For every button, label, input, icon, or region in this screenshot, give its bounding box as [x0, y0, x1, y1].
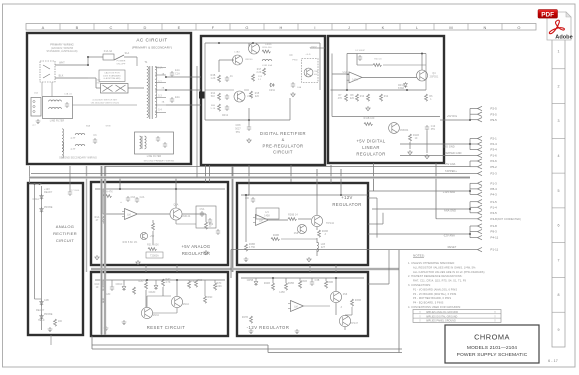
svg-text:STANDARD, AUSTRALIAN): STANDARD, AUSTRALIAN) [47, 50, 78, 53]
feed wire [41, 186, 43, 330]
wire [470, 143, 478, 145]
svg-text:TIP142: TIP142 [326, 223, 335, 225]
svg-text:ANALOG: ANALOG [56, 224, 74, 229]
wire [248, 108, 250, 125]
resistor R25B [285, 283, 288, 290]
connector pin P4-5 [478, 211, 483, 215]
wire [31, 173, 470, 175]
+5V analog regulator box [91, 182, 228, 265]
capacitor C3B [310, 280, 314, 286]
wire [470, 173, 478, 175]
junction [218, 42, 220, 44]
wire [267, 345, 269, 353]
svg-text:100K: 100K [216, 286, 222, 288]
wire [356, 54, 358, 66]
svg-text:4: 4 [557, 154, 559, 158]
svg-text:22T: 22T [321, 247, 326, 249]
svg-text:P2-6: P2-6 [491, 159, 498, 163]
svg-text:TIP147: TIP147 [350, 323, 359, 325]
junction [34, 183, 36, 185]
wire [382, 213, 384, 224]
junction [87, 56, 89, 58]
svg-text:C3A: C3A [314, 70, 319, 73]
analog ground [101, 298, 106, 303]
svg-text:SECOND SECONDARY WIRING: SECOND SECONDARY WIRING [59, 157, 97, 160]
connector pin P1-8 [478, 224, 483, 228]
capacitor C7A [68, 190, 72, 196]
svg-text:R1A: R1A [95, 216, 100, 219]
capacitor C3A [216, 229, 220, 235]
fuse F1A [103, 54, 114, 60]
wire [205, 119, 290, 121]
svg-text:R12: R12 [384, 96, 389, 98]
AC primary wiring note [47, 43, 78, 54]
svg-text:RH7, C11, CR14, Q15, R75, S4,: RH7, C11, CR14, Q15, R75, S4, S1, T1, F9 [413, 279, 467, 283]
svg-text:P9-3: P9-3 [491, 230, 498, 234]
junction [248, 119, 250, 121]
transistor CR10 [234, 91, 245, 102]
svg-text:R7D: R7D [217, 283, 222, 285]
resistor R23B [318, 230, 321, 237]
transistor CR7 [233, 55, 243, 65]
+5V digital regulator box [328, 36, 444, 163]
svg-text:C2A: C2A [140, 196, 145, 199]
switch contact [43, 74, 50, 78]
capacitor C1B [251, 197, 255, 203]
capacitor C6 [225, 94, 229, 100]
capacitor C6A [126, 196, 130, 202]
svg-text:+5V DIG: +5V DIG [447, 115, 457, 118]
wire [91, 336, 93, 349]
wire [298, 218, 311, 220]
transistor Q2B [330, 291, 341, 302]
junction [469, 143, 471, 145]
svg-text:LM: LM [127, 215, 130, 217]
bus wire left vertical 2 [34, 184, 36, 299]
svg-text:2SF551: 2SF551 [430, 77, 439, 79]
resistor R8 [356, 94, 359, 101]
wire [188, 280, 190, 281]
transformer core [149, 66, 151, 119]
resistor R12 [380, 94, 383, 101]
resistor R4D [162, 279, 165, 286]
svg-text:1458: 1458 [264, 216, 270, 218]
svg-text:PRIMARY WIRING: PRIMARY WIRING [50, 43, 74, 47]
wire [470, 231, 478, 233]
AC circuit title [132, 38, 172, 50]
bus horizontal below middle row [91, 268, 399, 270]
analog rectifier title [53, 224, 77, 243]
svg-text:LM: LM [259, 221, 262, 223]
wire [95, 78, 97, 88]
wire [152, 231, 154, 245]
svg-text:(NOT CONNECTED): (NOT CONNECTED) [497, 218, 521, 221]
wire [155, 280, 157, 284]
junction [165, 89, 167, 91]
svg-text:▽: ▽ [494, 320, 496, 323]
junction [176, 279, 178, 281]
wire [290, 165, 292, 182]
wire [368, 223, 383, 225]
analog ground [244, 257, 249, 262]
wire [176, 223, 196, 225]
wire [55, 64, 88, 66]
wire [205, 214, 207, 222]
wire [372, 208, 470, 210]
connector pin P5-2 [478, 165, 483, 169]
crossing vertical [175, 178, 177, 190]
svg-text:CR1D: CR1D [116, 284, 123, 286]
svg-text:5: 5 [557, 189, 559, 193]
svg-text:POWER: POWER [117, 61, 126, 63]
top rail [205, 42, 320, 44]
wire [218, 60, 220, 72]
svg-text:PROBE: PROBE [44, 314, 53, 316]
wire [175, 189, 177, 208]
svg-text:NOTES:: NOTES: [413, 254, 425, 258]
svg-text:4-7T: 4-7T [70, 149, 76, 151]
switch S1 [114, 55, 124, 60]
svg-text:C: C [110, 25, 113, 30]
ground [136, 260, 140, 265]
junction [175, 188, 177, 190]
wire [182, 213, 206, 215]
resistor R5D [195, 280, 198, 287]
svg-text:READY: READY [36, 309, 45, 312]
svg-text:R3D: R3D [191, 281, 196, 283]
svg-text:P2-5: P2-5 [491, 107, 498, 111]
svg-text:BLK: BLK [59, 75, 64, 78]
svg-text:RECTIFIER: RECTIFIER [53, 231, 77, 236]
resistor R31 [148, 248, 157, 251]
svg-text:P4-11: P4-11 [491, 236, 499, 240]
capacitor C8 [291, 82, 295, 88]
wire [330, 165, 332, 183]
svg-text:CR12: CR12 [222, 115, 229, 117]
wire [299, 278, 301, 281]
analog ground [48, 327, 53, 332]
wire [421, 54, 423, 71]
svg-text:-12V REGULATOR: -12V REGULATOR [247, 325, 290, 330]
second rail [331, 89, 427, 91]
wire [269, 219, 288, 221]
secondary winding group [62, 129, 97, 158]
wire [470, 166, 478, 168]
+5V digital title [356, 139, 385, 157]
svg-text:1458: 1458 [279, 292, 285, 294]
wire [398, 250, 400, 353]
inductor LF2 [49, 107, 62, 109]
resistor R29B [271, 238, 279, 241]
bus bracket [469, 109, 471, 121]
svg-text:230V: 230V [95, 83, 101, 85]
svg-text:CR5B: CR5B [247, 280, 254, 282]
svg-text:51K: 51K [211, 96, 216, 98]
filter core [141, 136, 143, 149]
svg-text:FWD: FWD [292, 60, 298, 62]
wire [470, 237, 478, 239]
box crossing wire [335, 265, 337, 272]
svg-text:2N44: 2N44 [183, 304, 190, 306]
svg-text:I: I [314, 25, 315, 30]
mid rail [332, 116, 440, 118]
svg-text:2N34: 2N34 [153, 315, 160, 317]
wire +12V output [364, 194, 368, 196]
svg-text:POWER SUPPLY SCHEMATIC: POWER SUPPLY SCHEMATIC [457, 352, 528, 358]
svg-text:▽: ▽ [419, 311, 421, 314]
resistor R7D [214, 283, 217, 290]
ground [425, 154, 429, 159]
svg-text:L1B: L1B [321, 244, 326, 246]
resistor R40 [373, 64, 381, 67]
op-amp U1A [347, 72, 363, 83]
svg-text:F1A 3A: F1A 3A [104, 50, 113, 53]
svg-text:E2A: E2A [175, 96, 180, 99]
svg-text:R24B: R24B [264, 283, 271, 285]
svg-text:PROBE: PROBE [44, 207, 53, 209]
feedback sub-box [256, 208, 279, 219]
wire [87, 57, 89, 65]
inductor T1 primary [147, 66, 149, 117]
resistor R1D [133, 287, 136, 294]
title block [445, 325, 539, 363]
wire [368, 197, 377, 199]
svg-text:6: 6 [557, 224, 559, 228]
wire [152, 220, 154, 223]
svg-text:5.2: 5.2 [158, 82, 162, 84]
wire [332, 73, 349, 75]
analog rectifier box [28, 183, 83, 335]
wire [376, 198, 378, 238]
svg-text:GRN: GRN [106, 126, 111, 128]
diode CR2A [40, 207, 44, 213]
caution box [99, 70, 125, 82]
resistor R11B [409, 134, 412, 141]
wire [325, 278, 327, 281]
junction [245, 194, 247, 196]
svg-text:Adobe: Adobe [555, 35, 572, 41]
svg-text:R6D: R6D [208, 297, 213, 299]
wire [128, 87, 144, 89]
wire [214, 280, 216, 283]
filter sub-box [196, 206, 216, 228]
top rail [347, 53, 426, 55]
wire [316, 227, 318, 230]
svg-text:R17: R17 [257, 69, 262, 71]
wire [425, 54, 427, 91]
reset wire vertical [230, 250, 232, 278]
svg-text:2N6: 2N6 [343, 294, 348, 296]
svg-text:P2-3: P2-3 [491, 172, 498, 176]
svg-text:O: O [517, 25, 520, 30]
bottom wire [92, 344, 268, 346]
capacitor C8A [208, 218, 212, 224]
wire +5V DIG [444, 119, 470, 121]
junction [272, 277, 274, 279]
diode CR1D [122, 285, 126, 291]
svg-text:R11B: R11B [413, 135, 419, 137]
resistor R16 [262, 50, 270, 53]
transistor Q2A [170, 208, 182, 220]
svg-text:DIG GND: DIG GND [443, 146, 454, 149]
wire [204, 280, 206, 296]
svg-text:220: 220 [255, 96, 260, 98]
wire [248, 165, 250, 195]
digital rectifier title [260, 131, 306, 155]
svg-text:RESET CIRCUIT: RESET CIRCUIT [147, 325, 186, 330]
box crossing wire [309, 265, 311, 272]
wire [231, 249, 470, 251]
ground [307, 257, 311, 262]
wire between boxes [196, 66, 198, 178]
svg-text:▽: ▽ [494, 311, 496, 314]
wire to digital box [166, 104, 201, 106]
wire [102, 189, 104, 214]
wire [289, 98, 291, 120]
svg-text:ANA GND: ANA GND [444, 210, 456, 213]
bus bracket [469, 139, 471, 150]
connector pin P4-11 [478, 235, 483, 239]
resistor R15 [250, 91, 253, 98]
svg-text:B: B [76, 25, 79, 30]
svg-text:P9-5: P9-5 [491, 118, 498, 122]
junction [406, 89, 408, 91]
inductor L4B [262, 59, 272, 61]
resistor R6D [204, 296, 207, 303]
svg-text:P2 - I/O BOARD (DIGITAL), 6 PI: P2 - I/O BOARD (DIGITAL), 6 PINS [413, 292, 457, 296]
svg-text:J: J [348, 25, 350, 30]
resistor R33B [351, 299, 354, 306]
inductor LF1 [49, 100, 62, 102]
svg-text:R33B: R33B [355, 300, 362, 302]
connector pin P9-3 [478, 229, 483, 233]
svg-text:L4005: L4005 [265, 44, 272, 46]
svg-text:+5V DIGITAL: +5V DIGITAL [356, 139, 385, 144]
svg-text:+160V: +160V [309, 47, 317, 49]
svg-text:DIGITAL RECTIFIER: DIGITAL RECTIFIER [260, 131, 306, 136]
wire to digital box [166, 76, 201, 78]
digital rectifier box [201, 36, 325, 165]
svg-text:5027: 5027 [235, 129, 241, 131]
resistor R7 [345, 94, 348, 101]
svg-text:6 - 17: 6 - 17 [548, 359, 558, 363]
svg-text:R29B: R29B [273, 235, 280, 237]
wire [316, 195, 318, 215]
capacitor C10 [425, 125, 429, 131]
capacitor C2A [135, 197, 139, 203]
svg-text:C1A .01: C1A .01 [64, 93, 73, 96]
svg-text:R27B: R27B [242, 317, 249, 319]
svg-text:ALL RESISTOR VALUES ARE IN OHM: ALL RESISTOR VALUES ARE IN OHMS, 1/4W, 5… [413, 265, 476, 269]
wire [281, 238, 317, 240]
AC inlet box [31, 98, 41, 117]
connector pin P9-5 [478, 118, 483, 122]
svg-text:+12V: +12V [341, 195, 353, 200]
resistor R27B [250, 316, 253, 323]
connector pin P1-4 [478, 205, 483, 209]
svg-text:R2D: R2D [139, 281, 144, 283]
svg-text:CRF50: CRF50 [245, 59, 253, 61]
wire [245, 195, 247, 242]
svg-text:2N6124: 2N6124 [182, 216, 191, 218]
junction [469, 119, 471, 121]
svg-text:CHROMA: CHROMA [474, 333, 510, 342]
capacitor C3 [93, 138, 97, 144]
wire [470, 149, 478, 151]
op-amp U1B [253, 215, 269, 226]
svg-text:H: H [280, 25, 283, 30]
svg-text:2.2K: 2.2K [256, 72, 261, 74]
svg-text:R11B 100: R11B 100 [364, 118, 375, 120]
wire [470, 155, 478, 157]
bus bracket [469, 202, 471, 213]
inductor T1 secondary [155, 66, 157, 117]
junction [340, 194, 342, 196]
wire [368, 233, 470, 235]
wire [344, 327, 346, 330]
svg-text:R14: R14 [211, 93, 216, 95]
AC circuit box [27, 33, 191, 164]
svg-text:IMPLIES ANALOG GROUND: IMPLIES ANALOG GROUND [426, 311, 458, 314]
svg-text:LINE FILTER: LINE FILTER [50, 121, 65, 123]
capacitor C1 [170, 71, 174, 77]
svg-text:C2D: C2D [106, 294, 111, 296]
svg-text:CAUTION FOR: CAUTION FOR [104, 72, 120, 75]
crossing vertical [316, 169, 318, 195]
ground [95, 255, 99, 260]
wire [362, 76, 417, 78]
svg-text:R15: R15 [255, 93, 260, 95]
junction [146, 279, 148, 281]
svg-text:10V: 10V [314, 74, 319, 76]
svg-text:9: 9 [557, 328, 559, 332]
vertical feed wire [248, 43, 250, 47]
wire [88, 77, 96, 79]
junction [346, 89, 348, 91]
connector pin P3-4 [478, 147, 483, 151]
svg-text:U1A: U1A [343, 71, 348, 74]
svg-text:&: & [282, 137, 285, 142]
wire [55, 77, 88, 79]
junction [421, 53, 423, 55]
wire [409, 142, 411, 149]
svg-text:4. CONVENTIONS USED FOR GROUND: 4. CONVENTIONS USED FOR GROUNDS: [408, 305, 461, 309]
svg-text:PDF: PDF [541, 11, 554, 18]
connector pin P2-6 [478, 159, 483, 163]
svg-text:+12V ANA: +12V ANA [443, 191, 456, 194]
transistor Q3B [297, 224, 306, 233]
wire [368, 190, 470, 192]
svg-text:7: 7 [557, 258, 559, 262]
+12V regulator box [237, 183, 368, 265]
capacitor C2 [170, 97, 174, 103]
svg-text:REGULATOR: REGULATOR [332, 202, 361, 207]
wire [103, 213, 124, 215]
notes text [408, 261, 485, 309]
svg-text:E1A: E1A [175, 69, 180, 72]
svg-text:P4-5: P4-5 [491, 211, 498, 215]
resistor R4 [218, 75, 221, 82]
label box T2082A [146, 252, 163, 258]
wire [162, 279, 164, 280]
analog frame bottom [50, 335, 52, 345]
capacitor C5A [200, 211, 204, 217]
entry tab [200, 92, 205, 98]
resistor R31B [299, 281, 302, 288]
svg-text:R4B: R4B [211, 75, 216, 77]
svg-text:3. CONNECTORS:: 3. CONNECTORS: [408, 283, 431, 287]
svg-text:P3-5: P3-5 [491, 112, 498, 116]
